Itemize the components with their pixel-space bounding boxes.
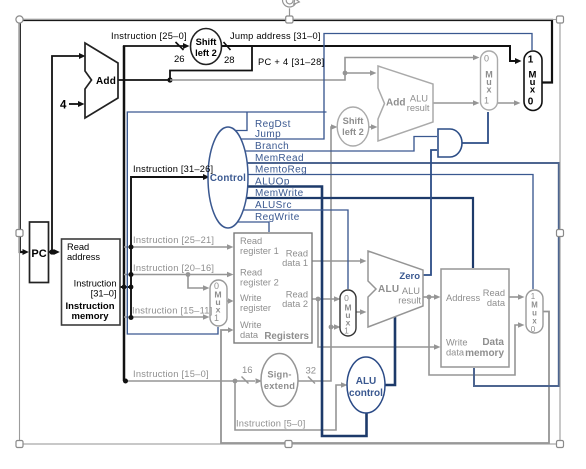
node: 20-16 branch junction bbox=[186, 272, 191, 277]
wire: Instruction[25-21] to Read register 1 bbox=[124, 244, 234, 249]
wire: ALUOp control to ALU control bbox=[247, 187, 367, 437]
svg-text:data: data bbox=[487, 298, 506, 308]
svg-text:ALU: ALU bbox=[356, 376, 377, 387]
wire: instruction bus vertical bbox=[123, 46, 126, 381]
svg-text:data: data bbox=[240, 330, 259, 340]
node: bus tap 15-0 bbox=[123, 379, 128, 384]
wire: Read data 1 to ALU bbox=[312, 258, 367, 263]
wire: shift left 2 (branch) output to branch adder bbox=[369, 124, 378, 129]
svg-text:Instruction [15–0]: Instruction [15–0] bbox=[133, 369, 209, 379]
svg-text:RegWrite: RegWrite bbox=[255, 212, 300, 223]
svg-text:16: 16 bbox=[242, 365, 253, 376]
data memory bbox=[441, 269, 509, 367]
svg-text:28: 28 bbox=[224, 55, 235, 66]
svg-text:register: register bbox=[240, 303, 271, 313]
wire: ALU result to data memory Address bbox=[423, 294, 441, 299]
registers file bbox=[234, 233, 312, 343]
svg-text:extend: extend bbox=[264, 381, 295, 391]
svg-text:PC: PC bbox=[31, 248, 46, 260]
svg-text:left 2: left 2 bbox=[342, 127, 364, 137]
node: sign extend branch junction bbox=[329, 325, 334, 330]
wire: Instruction[15-11] to RegDst mux input 1 bbox=[124, 314, 210, 319]
handle top-right bbox=[557, 16, 564, 23]
svg-text:0: 0 bbox=[344, 293, 349, 303]
mux writeback (MemtoReg) bbox=[526, 290, 543, 334]
svg-text:Read: Read bbox=[240, 268, 262, 278]
svg-text:Instruction [15–11]: Instruction [15–11] bbox=[132, 306, 213, 316]
svg-text:control: control bbox=[349, 388, 383, 399]
wire: PC+4[31-28] up to jump address merge bbox=[170, 46, 252, 80]
wire: RegDst control to mux select bbox=[236, 112, 247, 131]
svg-text:Instruction [25–21]: Instruction [25–21] bbox=[133, 235, 214, 245]
wire: MemRead control to data memory bbox=[247, 163, 559, 386]
wire: sign extend value into ALUSrc mux input 1 bbox=[331, 324, 341, 329]
wire: ALUSrc control to mux select bbox=[241, 210, 348, 289]
wire: Instruction[15-0] to sign extend bbox=[124, 378, 262, 383]
adder Add (PC+4) bbox=[85, 43, 118, 118]
svg-text:memory: memory bbox=[72, 311, 110, 322]
svg-text:Data: Data bbox=[482, 337, 504, 348]
wire: jump address from shift left 2 to jump mux bbox=[221, 46, 522, 64]
wire: MemtoReg control to writeback mux select bbox=[248, 175, 533, 290]
handle mid-left bbox=[16, 230, 23, 237]
wire: PC+4 into branch adder top input bbox=[345, 70, 377, 75]
shift left 2 (branch) bbox=[337, 107, 369, 146]
svg-text:Read: Read bbox=[67, 242, 89, 252]
wire: Instruction[31-26] to Control bbox=[131, 174, 210, 318]
wire: PC+4 gray to branch mux and branch adder bbox=[170, 58, 475, 81]
ALU control bbox=[347, 357, 385, 413]
wire: Zero flag to AND gate bbox=[423, 150, 437, 275]
handle bottom-center bbox=[285, 441, 292, 448]
wire: RegWrite control to Registers bbox=[231, 222, 269, 232]
svg-text:1: 1 bbox=[528, 55, 534, 66]
PC register bbox=[30, 222, 49, 283]
wire: Read data 2 to data memory Write data bbox=[318, 299, 441, 350]
svg-text:Read: Read bbox=[240, 236, 262, 246]
svg-text:MemtoReg: MemtoReg bbox=[255, 165, 307, 176]
wire: Instruction[20-16] down to RegDst mux input 0 bbox=[188, 275, 210, 291]
node: ALU result junction bbox=[427, 295, 432, 300]
svg-text:Control: Control bbox=[210, 173, 246, 184]
handle top-center bbox=[286, 16, 293, 23]
slash: 16-bit mark bbox=[242, 377, 249, 384]
node: bus tap 15-11 bbox=[129, 315, 134, 320]
wire: Instruction[25-0] to shift left 2 bbox=[123, 45, 184, 47]
svg-text:result: result bbox=[407, 103, 430, 113]
sign extend bbox=[261, 354, 298, 407]
AND gate (branch) bbox=[438, 129, 462, 157]
wire: Branch control to AND gate bbox=[245, 137, 437, 152]
svg-text:Shift: Shift bbox=[196, 37, 217, 47]
node: bus tap 20-16 bbox=[129, 272, 134, 277]
handle bottom-right bbox=[557, 441, 564, 448]
svg-text:Write: Write bbox=[240, 320, 262, 330]
svg-text:Read: Read bbox=[286, 249, 308, 259]
wire: RegDst mux output to Write register bbox=[227, 298, 234, 303]
node: PC+4 branch junction bbox=[343, 71, 348, 76]
slash: 28-bit mark bbox=[224, 42, 231, 50]
svg-text:Instruction [25–0]: Instruction [25–0] bbox=[111, 31, 187, 41]
node: PC output junction bbox=[49, 249, 54, 254]
svg-text:memory: memory bbox=[465, 348, 504, 359]
svg-text:Instruction [20–16]: Instruction [20–16] bbox=[133, 263, 214, 273]
svg-text:ALU: ALU bbox=[402, 286, 420, 296]
svg-text:Zero: Zero bbox=[399, 271, 420, 282]
svg-text:Address: Address bbox=[446, 293, 480, 303]
wire: ALU control output to ALU bbox=[385, 316, 395, 385]
wire: AND gate output to branch mux select bbox=[462, 112, 488, 143]
wire: MemWrite control to data memory bbox=[245, 198, 473, 268]
adder Add (branch target) bbox=[378, 66, 433, 141]
svg-text:Branch: Branch bbox=[255, 141, 289, 152]
svg-text:MemRead: MemRead bbox=[255, 153, 304, 164]
mux ALUSrc bbox=[340, 290, 356, 336]
wire: sign extend output to ALUSrc mux and shift left 2 (branch) bbox=[298, 124, 338, 381]
svg-text:left 2: left 2 bbox=[195, 48, 217, 58]
svg-text:32: 32 bbox=[306, 366, 317, 377]
wire: Add output PC+4 bbox=[118, 79, 170, 81]
wire: branch adder output to branch mux input 1 bbox=[433, 100, 480, 105]
handle mid-right bbox=[557, 230, 564, 237]
svg-text:data 2: data 2 bbox=[282, 299, 308, 309]
svg-text:register 2: register 2 bbox=[240, 278, 279, 288]
node: 15-0 branch junction bbox=[233, 379, 238, 384]
rotation handle bbox=[283, 0, 300, 16]
wire: Read data 2 to ALUSrc mux input 0 bbox=[312, 296, 341, 301]
node: instruction output junctions bbox=[122, 285, 127, 290]
wire: PC value up to Add bbox=[52, 53, 86, 252]
svg-text:[31–0]: [31–0] bbox=[91, 289, 117, 299]
mux jump bbox=[524, 51, 542, 111]
svg-text:ALU: ALU bbox=[378, 284, 399, 295]
wire: ALU result to writeback mux input 0 bbox=[429, 297, 525, 375]
svg-text:ALUOp: ALUOp bbox=[255, 177, 290, 188]
svg-text:Write: Write bbox=[240, 293, 262, 303]
svg-text:26: 26 bbox=[174, 54, 185, 65]
handle bottom-left bbox=[16, 441, 23, 448]
wire: Instruction[20-16] to Read register 2 bbox=[124, 272, 234, 277]
svg-text:Jump: Jump bbox=[255, 129, 281, 140]
control unit bbox=[208, 127, 248, 228]
node: read data 2 branch junction bbox=[316, 297, 321, 302]
ALU bbox=[368, 251, 423, 327]
wire: ALUSrc mux output to ALU bbox=[356, 309, 367, 314]
wire: Instruction[5-0] to ALU control bbox=[235, 381, 348, 430]
slash: 26-bit mark bbox=[176, 42, 184, 50]
svg-text:data: data bbox=[446, 348, 465, 358]
svg-text:0: 0 bbox=[531, 325, 536, 334]
svg-text:x: x bbox=[530, 85, 536, 96]
svg-text:data 1: data 1 bbox=[282, 258, 308, 268]
instruction memory bbox=[62, 239, 121, 325]
mux RegDst bbox=[210, 280, 227, 326]
svg-text:result: result bbox=[398, 296, 421, 306]
svg-text:Add: Add bbox=[386, 98, 405, 109]
svg-text:Read: Read bbox=[286, 290, 308, 300]
svg-text:Registers: Registers bbox=[264, 331, 309, 342]
svg-text:0: 0 bbox=[528, 97, 534, 108]
svg-text:1: 1 bbox=[484, 96, 489, 106]
shift left 2 (jump) bbox=[191, 29, 222, 65]
svg-text:Instruction [5–0]: Instruction [5–0] bbox=[236, 419, 306, 429]
slash: 32-bit mark bbox=[308, 377, 315, 384]
svg-text:Sign-: Sign- bbox=[267, 370, 291, 380]
wire: PC output to instruction memory bbox=[49, 249, 60, 255]
node: PC+4 junction bbox=[167, 77, 172, 82]
svg-text:1: 1 bbox=[344, 326, 349, 336]
wire: Jump control to jump mux select bbox=[240, 34, 532, 140]
wire: PC feedback loop (mux output to PC, black, top and left edges) bbox=[20, 20, 552, 255]
svg-text:Add: Add bbox=[96, 76, 116, 87]
svg-text:address: address bbox=[67, 252, 100, 262]
svg-text:PC + 4 [31–28]: PC + 4 [31–28] bbox=[258, 57, 324, 67]
svg-text:4: 4 bbox=[60, 100, 67, 112]
svg-text:ALUSrc: ALUSrc bbox=[255, 200, 292, 211]
svg-text:Shift: Shift bbox=[343, 116, 364, 126]
wire: data memory Read data to writeback mux input 1 bbox=[509, 294, 525, 299]
svg-text:MemWrite: MemWrite bbox=[255, 188, 304, 199]
wire: constant 4 into Add bbox=[60, 100, 85, 112]
wire: branch mux output to jump mux input 0 bbox=[497, 100, 521, 105]
svg-text:Read: Read bbox=[483, 288, 505, 298]
svg-text:1: 1 bbox=[214, 313, 219, 323]
node: bus tap 25-21 bbox=[129, 245, 134, 250]
svg-text:ALU: ALU bbox=[410, 94, 428, 104]
handle top-left bbox=[16, 16, 23, 23]
svg-text:Write: Write bbox=[446, 338, 468, 348]
wire: writeback mux output to Registers Write data bbox=[221, 312, 549, 444]
svg-text:x: x bbox=[486, 85, 491, 95]
svg-text:0: 0 bbox=[484, 54, 489, 64]
wire: instruction memory output bbox=[120, 286, 133, 288]
svg-text:Instruction [31–26]: Instruction [31–26] bbox=[133, 164, 213, 174]
svg-text:Jump address [31–0]: Jump address [31–0] bbox=[230, 31, 321, 41]
svg-text:register 1: register 1 bbox=[240, 246, 279, 256]
svg-text:Instruction: Instruction bbox=[74, 279, 117, 289]
mux branch (PCSrc) bbox=[481, 51, 498, 110]
